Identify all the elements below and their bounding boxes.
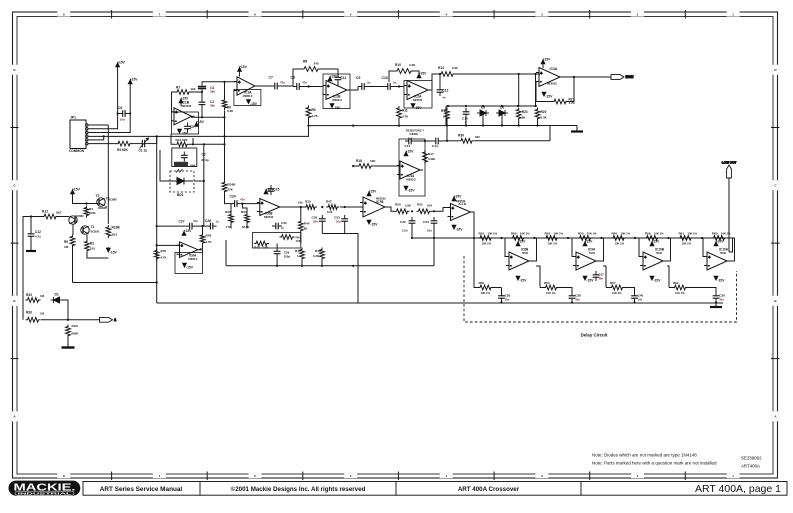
wire R44 bot bbox=[300, 233, 302, 244]
junction limiter e bbox=[517, 105, 519, 107]
resistor R46 bbox=[320, 248, 325, 261]
wire ground bus long bbox=[157, 302, 723, 304]
svg-text:4580D.2: 4580D.2 bbox=[332, 98, 342, 102]
svg-text:10K: 10K bbox=[263, 246, 269, 250]
svg-text:C7: C7 bbox=[269, 76, 273, 80]
svg-text:C14: C14 bbox=[405, 144, 411, 148]
svg-text:+15V: +15V bbox=[543, 58, 552, 62]
svg-text:10K 1%: 10K 1% bbox=[621, 232, 631, 236]
wire R9 bottom bbox=[308, 120, 310, 126]
wire C6 left bbox=[118, 113, 119, 115]
svg-text:10K 1%: 10K 1% bbox=[488, 232, 498, 236]
resistor R31 bbox=[245, 213, 250, 225]
zone label bottom 5 bbox=[344, 473, 357, 478]
resistor R14 bbox=[439, 72, 455, 77]
svg-text:R20: R20 bbox=[541, 110, 547, 114]
resistor R2 bbox=[85, 240, 90, 253]
svg-text:/ HERE: / HERE bbox=[409, 132, 418, 136]
svg-text:+15V: +15V bbox=[652, 240, 661, 244]
junction R13 b bbox=[203, 143, 205, 145]
resistor R15 bbox=[66, 325, 71, 338]
svg-text:4.7K: 4.7K bbox=[402, 115, 409, 119]
op-amp IC3A bbox=[536, 68, 563, 87]
svg-text:+: + bbox=[408, 84, 410, 88]
svg-text:R12: R12 bbox=[42, 210, 48, 214]
transistor T3 bbox=[69, 216, 77, 224]
svg-text:IC8B: IC8B bbox=[521, 248, 529, 252]
wire IC7A out bbox=[471, 212, 475, 238]
svg-text:10K 1%: 10K 1% bbox=[612, 291, 622, 295]
junction C28 bbox=[500, 301, 502, 303]
resistor R59 bbox=[478, 285, 493, 290]
resistor R61 delay row 7 bbox=[678, 236, 693, 241]
svg-text:R55: R55 bbox=[578, 232, 584, 236]
svg-text:-15V: -15V bbox=[334, 106, 342, 110]
svg-text:R47: R47 bbox=[326, 200, 332, 204]
resistor R33 bbox=[26, 298, 41, 303]
junction limiter d bbox=[501, 105, 503, 107]
zone label right B bbox=[772, 296, 779, 306]
svg-text:IC9A: IC9A bbox=[588, 248, 596, 252]
svg-text:COMMON: COMMON bbox=[69, 149, 85, 153]
svg-text:+: + bbox=[510, 255, 512, 259]
wire IC2A out bbox=[428, 74, 439, 90]
wire R22 bot bbox=[537, 121, 539, 126]
svg-text:100: 100 bbox=[90, 247, 95, 251]
wire IC6A minus bbox=[157, 244, 180, 246]
feedback box IC1A bbox=[234, 89, 261, 105]
resistor R45 bbox=[300, 248, 305, 261]
svg-text:R17: R17 bbox=[428, 152, 434, 156]
svg-text:+: + bbox=[261, 201, 263, 205]
svg-text:+15V: +15V bbox=[196, 120, 205, 124]
capacitor C3 bbox=[181, 152, 188, 162]
svg-text:+: + bbox=[401, 164, 403, 168]
junction BD1 right bbox=[203, 180, 205, 182]
wire R30 left up bbox=[446, 126, 448, 141]
wire R59 left bbox=[474, 238, 478, 288]
wire IC2B out bbox=[347, 87, 358, 91]
resistor R35 bbox=[304, 205, 317, 210]
svg-text:R44: R44 bbox=[304, 222, 310, 226]
op-amp IC7A bbox=[448, 204, 474, 221]
power +15V IC6A bbox=[182, 232, 186, 236]
wire IC10A minus up bbox=[703, 238, 704, 257]
op-amp IC10A bbox=[704, 252, 730, 270]
resistor R52 bbox=[417, 209, 432, 214]
svg-text:NE5532: NE5532 bbox=[547, 82, 557, 86]
wire R30 right bbox=[474, 140, 550, 142]
wire BD1 right bbox=[194, 180, 204, 182]
junction bb5 bbox=[518, 124, 520, 126]
junction pin4 x224 bbox=[223, 135, 225, 137]
svg-text:R5: R5 bbox=[64, 240, 68, 244]
op-amp IC1A bbox=[234, 77, 258, 95]
svg-text:10K 1%: 10K 1% bbox=[481, 291, 491, 295]
svg-text:IC2B: IC2B bbox=[333, 95, 341, 99]
svg-text:IC4A: IC4A bbox=[407, 174, 415, 178]
wire R11 bottom bbox=[398, 120, 400, 126]
svg-text:C40: C40 bbox=[638, 294, 644, 298]
junction R7 C4 bbox=[201, 91, 203, 93]
resistor R17 bbox=[423, 150, 428, 164]
svg-text:1n: 1n bbox=[216, 220, 220, 224]
feedback box IC2B bbox=[323, 74, 350, 109]
zone divider right bbox=[771, 358, 780, 360]
junction limiter c bbox=[482, 105, 484, 107]
svg-text:+15V: +15V bbox=[239, 65, 248, 69]
feedback box IC6A bbox=[175, 253, 203, 274]
capacitor C40 bbox=[631, 292, 638, 302]
junction A node bbox=[67, 319, 69, 321]
wire C28 bottom bbox=[501, 301, 503, 304]
zone divider top bbox=[302, 10, 304, 19]
svg-text:R14: R14 bbox=[438, 66, 444, 70]
svg-text:10K 1%: 10K 1% bbox=[520, 232, 530, 236]
wire T2 down bbox=[98, 206, 106, 208]
power -15V IC7B bbox=[367, 220, 371, 224]
wire JP1 pin1 bbox=[88, 124, 108, 126]
svg-text:C37: C37 bbox=[598, 273, 604, 277]
wire R23 up bbox=[518, 74, 520, 106]
power +15V IC2B bbox=[328, 77, 332, 81]
svg-text:-15V: -15V bbox=[718, 279, 726, 283]
wire delay row bbox=[474, 237, 735, 239]
wire C28 top bbox=[501, 288, 503, 294]
wire BD1 vertical bbox=[203, 144, 205, 226]
capacitor C26 bbox=[207, 223, 217, 230]
zone label right A bbox=[772, 411, 779, 421]
wire R45 bottom bbox=[301, 261, 303, 266]
resistor R21 bbox=[552, 99, 568, 104]
svg-text:82.0p: 82.0p bbox=[202, 158, 210, 162]
junction limiter b bbox=[465, 105, 467, 107]
svg-text:2.2n: 2.2n bbox=[402, 229, 408, 233]
wire R62 left up bbox=[667, 266, 669, 288]
zone label left C bbox=[11, 180, 18, 190]
zone label right C bbox=[772, 180, 779, 190]
svg-text:BC850: BC850 bbox=[91, 230, 100, 234]
svg-text:IC1A: IC1A bbox=[244, 91, 252, 95]
svg-text:Delay Circuit: Delay Circuit bbox=[581, 333, 608, 338]
wire C13 right bbox=[442, 140, 447, 142]
svg-text:10K 1%: 10K 1% bbox=[675, 291, 685, 295]
wire C17 stem bbox=[30, 217, 32, 231]
wire C40 bottom bbox=[634, 301, 636, 304]
svg-text:C1 1u: C1 1u bbox=[139, 148, 148, 152]
zone label top 8 bbox=[57, 11, 70, 17]
wire R13 left bbox=[171, 134, 175, 144]
wire C2 down bbox=[201, 108, 203, 117]
svg-text:4.99k: 4.99k bbox=[428, 157, 435, 161]
resistor R24B bbox=[222, 181, 227, 194]
svg-text:10K: 10K bbox=[427, 204, 432, 208]
resistor R19 bbox=[445, 108, 450, 121]
wire C29 bot bbox=[276, 258, 278, 266]
svg-text:C11: C11 bbox=[340, 76, 346, 80]
svg-text:10K 1%: 10K 1% bbox=[482, 241, 492, 245]
power -15V IC1A bbox=[247, 100, 251, 104]
svg-text:R31: R31 bbox=[241, 210, 247, 214]
zone label left B bbox=[11, 296, 18, 306]
svg-text:+15V: +15V bbox=[406, 150, 415, 154]
wire D1 to node bbox=[63, 300, 69, 320]
capacitor C15 bbox=[463, 108, 470, 118]
wire IC6B out bbox=[280, 206, 306, 208]
wire R7 left bbox=[172, 92, 176, 112]
Mackie logo bbox=[9, 481, 81, 496]
wire IC3A out bbox=[563, 76, 611, 78]
svg-text:10u: 10u bbox=[120, 118, 125, 122]
svg-text:-15V: -15V bbox=[654, 279, 662, 283]
wire R10 loop bbox=[389, 71, 395, 82]
power -15V IC8B bbox=[516, 276, 520, 280]
wire limiter bottom bbox=[446, 125, 577, 127]
svg-text:+: + bbox=[452, 206, 454, 210]
svg-text:C24: C24 bbox=[230, 195, 236, 199]
svg-text:10n: 10n bbox=[638, 298, 643, 302]
wire R54 C38 link bbox=[559, 288, 573, 294]
wire IC7B out bbox=[388, 207, 395, 211]
svg-text:10n: 10n bbox=[719, 298, 724, 302]
zone divider left bbox=[11, 358, 19, 360]
svg-text:+15V: +15V bbox=[117, 61, 126, 65]
wire R30 left bbox=[447, 140, 459, 142]
svg-text:47K: 47K bbox=[228, 188, 234, 192]
svg-text:220p: 220p bbox=[284, 254, 291, 258]
wire C14 C13 link bbox=[415, 140, 432, 142]
svg-text:680K: 680K bbox=[72, 332, 80, 336]
svg-text:C12: C12 bbox=[35, 230, 41, 234]
wire R22 up bbox=[535, 74, 537, 106]
svg-text:10n: 10n bbox=[336, 220, 341, 224]
svg-text:T1: T1 bbox=[91, 225, 95, 229]
wire C33 drop bbox=[433, 227, 435, 238]
svg-text:R3 62K: R3 62K bbox=[117, 148, 129, 152]
zone label bottom 1 bbox=[727, 473, 740, 478]
resistor R16 dark bbox=[174, 162, 188, 167]
resistor R30 bbox=[459, 138, 474, 143]
svg-text:10K 1%: 10K 1% bbox=[615, 241, 625, 245]
svg-text:+15V: +15V bbox=[518, 240, 527, 244]
title box copyright bbox=[200, 482, 396, 496]
junction C38 bbox=[571, 301, 573, 303]
wire IC3A vcc bbox=[542, 66, 544, 68]
ground limiter bus bbox=[571, 126, 583, 132]
junction limiter f bbox=[534, 105, 536, 107]
zone divider bottom bbox=[206, 472, 208, 481]
wire C4 C2 mid bbox=[201, 90, 203, 99]
zone divider top bbox=[111, 10, 113, 19]
junction C36 top bbox=[321, 206, 323, 208]
wire R12 left bbox=[23, 217, 42, 301]
svg-text:+15V: +15V bbox=[184, 229, 193, 233]
wire IC10A out bbox=[730, 238, 735, 261]
wire R46 bottom bbox=[321, 261, 323, 266]
capacitor C28 bbox=[498, 292, 505, 302]
svg-text:C27: C27 bbox=[179, 220, 185, 224]
svg-text:C6: C6 bbox=[118, 106, 122, 110]
svg-text:4580D.2: 4580D.2 bbox=[406, 178, 416, 182]
svg-text:C30: C30 bbox=[281, 221, 287, 225]
resistor R47 bbox=[326, 205, 339, 210]
resistor R11 bbox=[397, 106, 402, 120]
capacitor C10 bbox=[384, 83, 394, 90]
wire pin1 down bbox=[107, 125, 109, 224]
wire C17 down bbox=[30, 240, 32, 247]
svg-text:NE5532: NE5532 bbox=[456, 199, 466, 203]
zone divider bottom bbox=[684, 472, 686, 481]
zone label left D bbox=[11, 65, 18, 75]
svg-text:R8: R8 bbox=[303, 60, 307, 64]
resistor R60 delay row 2 bbox=[511, 236, 526, 241]
power +15V IC2A bbox=[417, 74, 421, 78]
svg-text:10W: 10W bbox=[190, 163, 196, 167]
power -15V R16B bbox=[106, 247, 110, 252]
wire R8 loop left bbox=[293, 69, 302, 87]
svg-text:+15V: +15V bbox=[369, 190, 378, 194]
junction bb4 bbox=[501, 124, 503, 126]
wire T1 R2 bbox=[86, 235, 88, 240]
junction C33 rail bbox=[433, 237, 435, 239]
op-amp IC6A bbox=[177, 242, 202, 258]
wire IC10B minus up bbox=[639, 238, 640, 257]
svg-text:BC860: BC860 bbox=[75, 214, 84, 218]
svg-text:R52: R52 bbox=[417, 203, 423, 207]
wire R54 left bbox=[540, 287, 544, 289]
zone label bottom 6 bbox=[249, 473, 262, 478]
svg-text:R60: R60 bbox=[511, 232, 517, 236]
diode BD1 bbox=[171, 169, 193, 185]
svg-text:4.7K: 4.7K bbox=[206, 240, 213, 244]
wire A line bbox=[41, 319, 100, 321]
svg-text:10K 1%: 10K 1% bbox=[548, 241, 558, 245]
svg-text:ART 400A Crossover: ART 400A Crossover bbox=[458, 486, 520, 493]
svg-text:R28: R28 bbox=[225, 210, 231, 214]
svg-text:R40: R40 bbox=[161, 249, 167, 253]
zone label left A bbox=[11, 411, 18, 421]
capacitor C7 bbox=[271, 83, 281, 90]
svg-text:+: + bbox=[708, 255, 710, 259]
wire R18 right bbox=[373, 165, 399, 167]
wire R28 bot bbox=[230, 225, 232, 229]
capacitor C13 bbox=[432, 138, 442, 145]
resistor R57 bbox=[610, 285, 625, 290]
power +15V IC10A bbox=[714, 242, 718, 246]
svg-text:R54: R54 bbox=[544, 281, 550, 285]
svg-text:+: + bbox=[175, 111, 177, 115]
svg-text:4580D.2: 4580D.2 bbox=[243, 94, 253, 98]
svg-text:5532: 5532 bbox=[720, 251, 726, 255]
title box page bbox=[581, 482, 787, 496]
wire IC10B out bbox=[666, 238, 671, 261]
connector LOW OUT bbox=[722, 161, 737, 179]
svg-text:10n: 10n bbox=[505, 298, 510, 302]
svg-text:Note: Diodes which are not mar: Note: Diodes which are not marked are ty… bbox=[592, 453, 697, 458]
feedback box IC1B bbox=[172, 112, 199, 134]
op-amp IC10B bbox=[640, 252, 666, 270]
zone divider right bbox=[771, 242, 780, 244]
wire R48 bot bbox=[202, 245, 204, 249]
resistor R53 delay row 3 bbox=[544, 236, 559, 241]
svg-text:39n: 39n bbox=[210, 90, 215, 94]
wire IC9A minus up bbox=[572, 238, 573, 257]
zone divider top bbox=[589, 10, 591, 19]
svg-text:10n: 10n bbox=[575, 298, 580, 302]
power -15V IC2B bbox=[330, 104, 334, 108]
svg-text:-15V: -15V bbox=[546, 95, 554, 99]
svg-text:3.3K: 3.3K bbox=[227, 109, 234, 113]
op-amp IC7B bbox=[360, 197, 388, 217]
wire R10 right down bbox=[413, 71, 419, 74]
zone divider left bbox=[11, 242, 19, 244]
svg-text:-15V: -15V bbox=[371, 223, 379, 227]
svg-text:+15V: +15V bbox=[585, 240, 594, 244]
junction bb1 bbox=[446, 124, 448, 126]
wire IC9A out bbox=[599, 238, 604, 261]
svg-text:47n: 47n bbox=[302, 81, 307, 85]
zone label bottom 2 bbox=[631, 473, 644, 478]
junction delay row 3 bbox=[533, 237, 535, 239]
svg-text:R24B: R24B bbox=[228, 183, 237, 187]
diode D6 bbox=[496, 110, 508, 116]
wire R21 loop bbox=[536, 82, 552, 102]
wire D5 bot bbox=[482, 113, 484, 126]
svg-text:R13 62K: R13 62K bbox=[176, 138, 189, 142]
resistor R50 bbox=[395, 209, 410, 214]
capacitor C8 bbox=[293, 83, 303, 90]
svg-text:R59: R59 bbox=[479, 281, 485, 285]
wire node down to IC6 section bbox=[156, 136, 158, 303]
zone label top 1 bbox=[727, 11, 740, 17]
delay circuit dashed box bbox=[464, 256, 737, 322]
junction R30 left bbox=[446, 140, 448, 142]
connector A bbox=[100, 317, 118, 322]
junction delay row 4 bbox=[567, 237, 569, 239]
op-amp IC2A bbox=[404, 81, 431, 100]
svg-text:R7: R7 bbox=[176, 86, 180, 90]
capacitor C27 bbox=[186, 223, 196, 230]
junction C29 bus bbox=[276, 265, 278, 267]
svg-text:R35: R35 bbox=[305, 200, 311, 204]
svg-text:47n: 47n bbox=[240, 198, 245, 202]
svg-text:+15V: +15V bbox=[130, 78, 139, 82]
wire mid bus y265 bbox=[226, 265, 434, 267]
feedback box IC4A bbox=[399, 139, 425, 196]
svg-text:2k2: 2k2 bbox=[56, 211, 61, 215]
svg-text:C33: C33 bbox=[423, 220, 429, 224]
svg-text:C9: C9 bbox=[356, 76, 360, 80]
zone divider bottom bbox=[493, 472, 495, 481]
svg-text:62.5K: 62.5K bbox=[242, 225, 249, 229]
wire R6 top bbox=[224, 82, 226, 98]
svg-text:+: + bbox=[577, 255, 579, 259]
svg-text:10K 1%: 10K 1% bbox=[688, 232, 698, 236]
zone label right D bbox=[772, 65, 779, 75]
zone divider top bbox=[206, 10, 208, 19]
svg-text:4580D.2: 4580D.2 bbox=[188, 258, 198, 261]
svg-text:C8: C8 bbox=[291, 76, 295, 80]
capacitor C1 variable bbox=[132, 138, 157, 149]
junction R11 top bbox=[398, 85, 400, 87]
wire JP1 pin6 bbox=[88, 143, 116, 145]
svg-text:R16B: R16B bbox=[112, 226, 121, 230]
svg-text:+: + bbox=[540, 71, 542, 75]
wire IC8B minus up bbox=[505, 238, 506, 257]
junction bus mid bbox=[352, 125, 354, 127]
junction IC3A out bbox=[573, 76, 575, 78]
wire R13 right bbox=[189, 143, 225, 145]
